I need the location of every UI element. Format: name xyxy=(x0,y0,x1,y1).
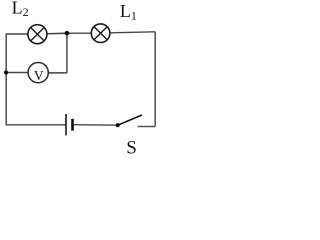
svg-text:L2: L2 xyxy=(12,0,29,19)
battery negative plate (short thick) xyxy=(71,119,74,131)
wire bottom-right stub from switch contact to right corner xyxy=(138,126,156,128)
wire voltmeter right terminal to junction branch corner xyxy=(49,72,67,74)
wire left vertical lower and bottom horizontal to battery xyxy=(6,73,65,125)
wire voltmeter left terminal to left tap node xyxy=(6,72,28,74)
wire from battery right plate to switch pivot xyxy=(73,124,117,127)
battery positive plate (long) xyxy=(65,114,67,135)
svg-text:S: S xyxy=(126,137,137,154)
wire from junction node to lamp L1 xyxy=(67,32,91,34)
svg-text:L1: L1 xyxy=(120,1,137,22)
wire from lamp L2 right terminal to junction node xyxy=(47,32,67,35)
lamp L1 (circle with cross) xyxy=(91,24,110,43)
wire top-left horizontal from left corner to lamp L2 xyxy=(6,33,28,35)
wire left vertical upper (top-left corner down to voltmeter tap node) xyxy=(5,33,7,72)
lamp L2 (circle with cross) xyxy=(28,25,47,44)
junction node A (dot between L2 and L1) xyxy=(65,31,70,36)
switch S pivot dot xyxy=(116,123,120,127)
wire from lamp L1 right terminal to top-right corner xyxy=(110,32,155,33)
wire right vertical down to switch contact side xyxy=(154,32,156,127)
wire vertical from junction node down to voltmeter branch xyxy=(66,33,68,73)
voltmeter U1 (circle with V) xyxy=(28,63,48,83)
svg-text:V: V xyxy=(34,68,44,83)
junction node B (dot on left wire at voltmeter tap) xyxy=(4,70,8,74)
switch S blade (open) xyxy=(118,115,142,125)
